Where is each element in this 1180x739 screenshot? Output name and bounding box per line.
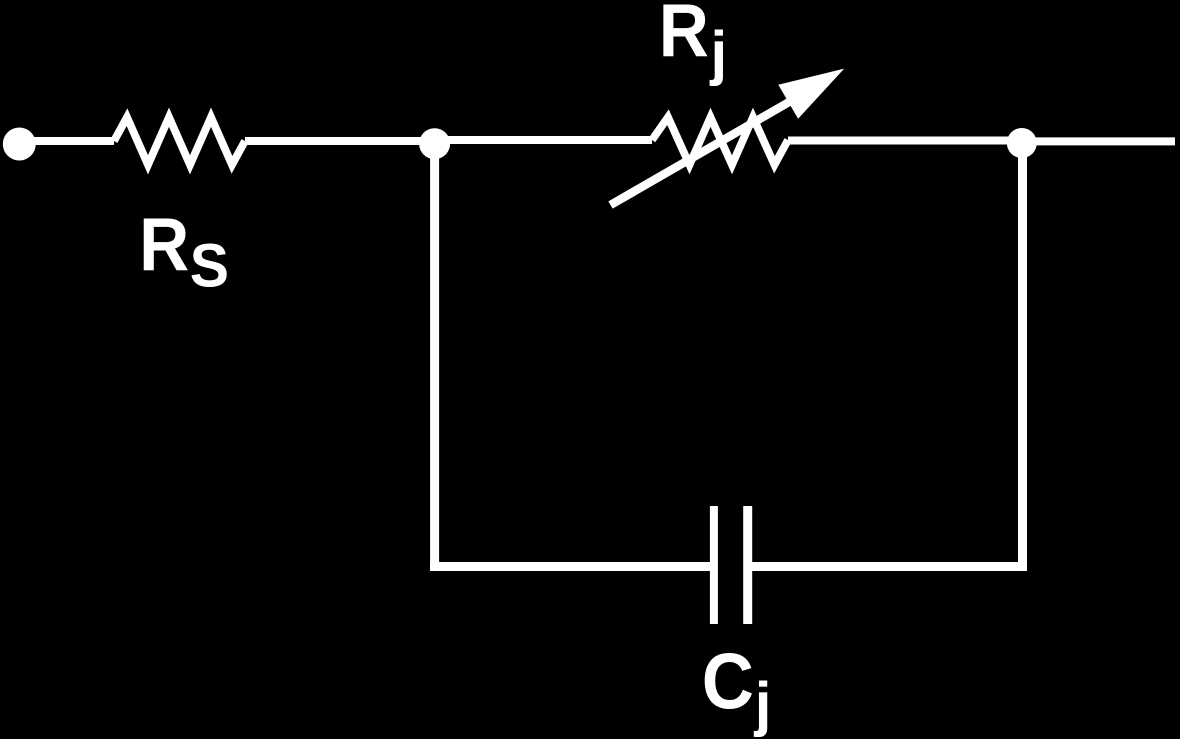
resistor R_S <box>114 117 245 165</box>
capacitor C_j (right plate) <box>743 506 752 624</box>
node A (left junction dot) <box>419 128 450 159</box>
label R_S <box>139 204 229 300</box>
resistor R_j (variable, zigzag) <box>652 117 788 165</box>
wire from input terminal to R_S <box>19 137 114 145</box>
left vertical wire (node A down) <box>430 143 439 571</box>
svg-text:R: R <box>139 204 189 287</box>
svg-text:j: j <box>754 671 772 738</box>
capacitor C_j (left plate) <box>710 506 718 624</box>
svg-text:j: j <box>710 20 728 87</box>
terminal dot (left input) <box>3 128 36 161</box>
label C_j <box>702 637 772 737</box>
svg-text:C: C <box>702 637 754 726</box>
wire from R_j to node B <box>788 137 1022 145</box>
node B (right junction dot) <box>1007 128 1037 158</box>
svg-text:R: R <box>659 0 709 73</box>
wire from R_S to node A <box>245 137 434 145</box>
variable-resistor arrow (diagonal through R_j) <box>611 69 845 205</box>
wire from node B to right output <box>1022 137 1175 145</box>
bottom wire left segment (to C_j) <box>430 562 714 571</box>
wire from node A to R_j <box>434 136 652 144</box>
svg-text:S: S <box>190 232 229 300</box>
right vertical wire (node B down) <box>1018 142 1027 571</box>
bottom wire right segment (from C_j) <box>748 562 1028 571</box>
label R_j <box>659 0 727 87</box>
